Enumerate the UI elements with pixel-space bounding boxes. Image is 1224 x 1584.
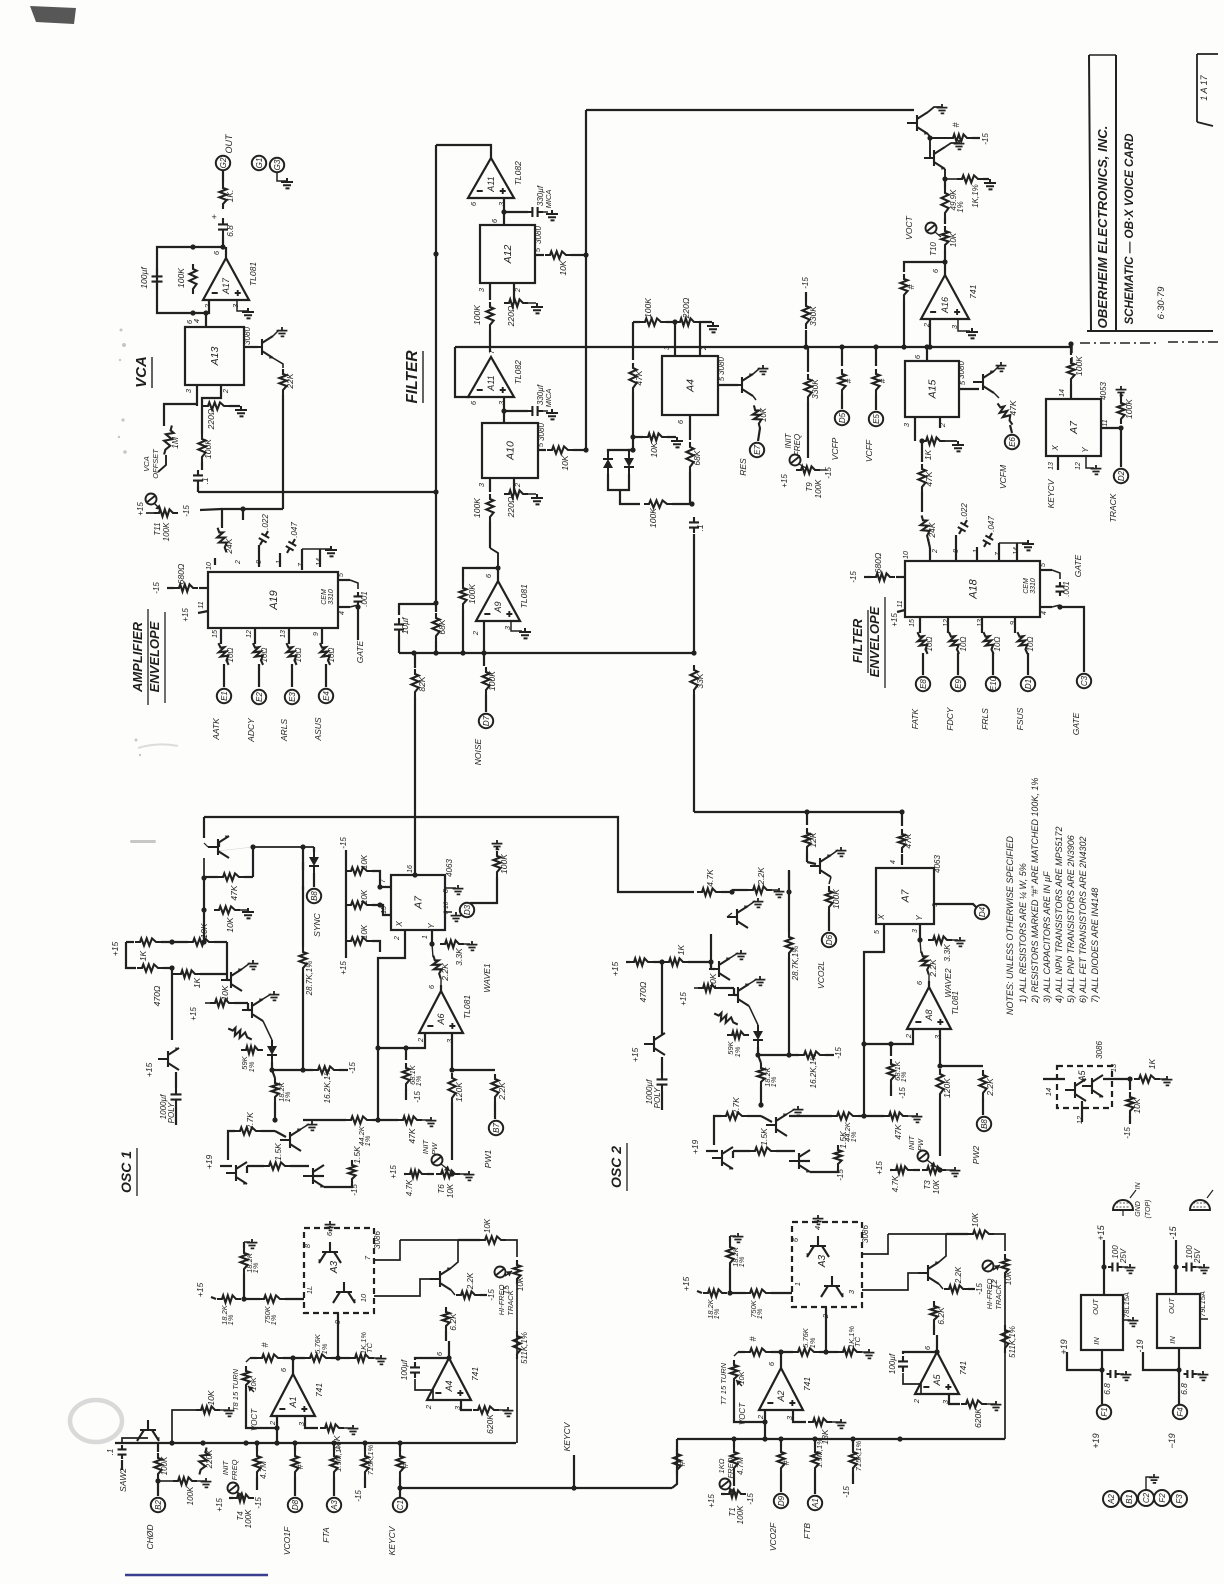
svg-text:6: 6: [279, 1367, 288, 1372]
T5 pot block osc1: [400, 1240, 458, 1268]
svg-text:3080: 3080: [537, 423, 546, 441]
svg-text:1.5K: 1.5K: [273, 1143, 283, 1161]
terminal F1: [1097, 1405, 1111, 1419]
grounds right of A7 osc1: [445, 887, 456, 889]
transistor HF track osc1: [430, 1267, 451, 1290]
svg-text:100K: 100K: [814, 479, 823, 498]
TO-92 package view 1: [1113, 1200, 1133, 1210]
svg-text:#: #: [951, 122, 961, 128]
svg-text:10K: 10K: [558, 260, 568, 275]
wire A3 osc2 pin2 down: [825, 1307, 827, 1352]
svg-text:220Ω: 220Ω: [681, 297, 691, 319]
svg-text:X: X: [877, 914, 886, 921]
svg-text:6: 6: [915, 980, 924, 985]
svg-text:3: 3: [902, 422, 911, 427]
resistor 470 osc1: [126, 942, 136, 968]
resistor star lower bus: [673, 1449, 680, 1475]
feedback wire to A11 upper: [436, 145, 491, 158]
capacitor 6.8 minus: [1184, 1370, 1197, 1378]
svg-text:-15: -15: [339, 837, 348, 849]
svg-text:100µf: 100µf: [400, 1359, 409, 1380]
svg-text:2.7K: 2.7K: [731, 1097, 741, 1116]
resistor 680ohm A19: [199, 587, 208, 589]
svg-text:100K: 100K: [472, 498, 482, 518]
svg-text:3.3K: 3.3K: [942, 944, 952, 962]
svg-text:ARLS: ARLS: [279, 719, 289, 743]
wires A5: [1043, 1078, 1065, 1080]
resistor 6.2K osc1: [442, 1307, 449, 1331]
svg-text:10Ω: 10Ω: [260, 648, 269, 663]
transistor Q top1: [907, 112, 928, 135]
svg-text:F1: F1: [1100, 1407, 1109, 1416]
svg-text:1.5M,1%: 1.5M,1%: [815, 1438, 824, 1468]
resistor 1K TC osc1: [350, 1354, 374, 1361]
svg-text:E9: E9: [954, 679, 963, 689]
svg-text:10Ω: 10Ω: [1026, 637, 1035, 652]
resistor 24K A18 chain: [918, 515, 932, 542]
ground above 100K: [1116, 386, 1127, 395]
resistor 1.5K osc2 a: [750, 1147, 776, 1154]
svg-text:FATK: FATK: [910, 708, 920, 729]
capacitor 100 25V minus: [1182, 1263, 1196, 1272]
ground at VCA transistor: [273, 330, 279, 336]
resistor * -15 top: [930, 137, 948, 139]
transistor at A15 out: [959, 388, 979, 390]
svg-text:2: 2: [912, 1398, 921, 1404]
terminal G2 OUT: [216, 156, 230, 170]
transistor pair A3 osc2: [806, 1236, 829, 1257]
resistor 47K left of A4: [632, 322, 634, 360]
svg-text:100K: 100K: [472, 305, 482, 325]
svg-text:100K: 100K: [467, 584, 477, 604]
resistor 1M: [161, 425, 176, 456]
svg-text:A4: A4: [685, 379, 697, 393]
svg-text:#: #: [906, 284, 916, 290]
osc1 +15 row: [203, 910, 205, 942]
svg-text:FREQ: FREQ: [793, 434, 802, 456]
svg-text:16.2K,1%: 16.2K,1%: [809, 1054, 818, 1089]
svg-text:1.5K: 1.5K: [352, 1146, 362, 1164]
transistor Q top2: [924, 147, 945, 170]
svg-text:#: #: [877, 378, 887, 383]
svg-text:E8: E8: [919, 679, 928, 689]
transistor osc2 a: [727, 905, 748, 928]
resistor 68K below A4: [689, 415, 691, 440]
terminal E2 ADCY: [252, 690, 266, 704]
resistor 715K osc1: [361, 1451, 368, 1477]
diode 59K osc1: [241, 1046, 263, 1053]
resistor 68.1K osc1: [405, 1048, 407, 1060]
A3 osc2 wires to HF track: [862, 1234, 888, 1254]
dashed box A3 osc2 3086: [792, 1222, 862, 1307]
feedback wire bus1 corner: [455, 347, 469, 397]
svg-text:#: #: [260, 1342, 270, 1348]
svg-text:FREQ: FREQ: [230, 1459, 239, 1480]
pot T10 VOCT: [944, 218, 946, 224]
svg-text:3) ALL CAPACITORS ARE IN µF: 3) ALL CAPACITORS ARE IN µF: [1042, 871, 1052, 1003]
resistor 5.76K osc2: [793, 1348, 819, 1355]
svg-text:10Ω: 10Ω: [294, 648, 303, 663]
terminal D7 NOISE: [479, 714, 493, 728]
svg-text:1: 1: [422, 935, 429, 939]
svg-text:6: 6: [490, 218, 499, 223]
svg-text:TL082: TL082: [513, 161, 523, 185]
svg-text:28.7K,1%: 28.7K,1%: [791, 946, 800, 982]
svg-text:VCO2F: VCO2F: [768, 1522, 778, 1551]
svg-text:+15: +15: [389, 1165, 398, 1179]
ground at A19 caps: [301, 549, 303, 570]
svg-text:.001: .001: [360, 591, 369, 607]
svg-text:GATE: GATE: [1071, 712, 1081, 735]
svg-text:1K: 1K: [676, 944, 686, 955]
svg-text:8: 8: [443, 889, 450, 893]
svg-text:D1: D1: [1024, 679, 1033, 689]
wire collector rail: [218, 843, 220, 847]
svg-text:10K: 10K: [225, 917, 235, 932]
svg-text:6.2K: 6.2K: [936, 1307, 946, 1325]
resistor 18K A2: [793, 1410, 806, 1422]
svg-text:10: 10: [903, 551, 910, 559]
svg-text:10K: 10K: [360, 924, 369, 939]
resistor 10K osc1 row: [188, 938, 214, 945]
wire A8 pin2 junction: [864, 1029, 913, 1044]
resistor star vco2f: [777, 1447, 784, 1473]
svg-text:F4: F4: [1176, 1407, 1185, 1417]
svg-text:9: 9: [313, 632, 320, 636]
op-amp A8 TL081: [907, 987, 951, 1029]
svg-text:E5: E5: [872, 414, 881, 424]
terminal G3: [270, 158, 284, 172]
transistor osc1 d: [280, 1128, 301, 1151]
svg-text:10Ω: 10Ω: [925, 637, 934, 652]
IC A10 3080: [482, 423, 538, 478]
terminal D6 VCO2L: [822, 933, 836, 947]
+15 at A18: [897, 610, 905, 612]
svg-text:47K: 47K: [229, 885, 239, 900]
svg-text:.1: .1: [106, 1449, 115, 1456]
svg-text:OUT: OUT: [1167, 1297, 1176, 1314]
ground at G3: [277, 173, 286, 181]
resistor 16.2K osc2: [799, 1051, 825, 1058]
resistor 2.2K osc2 gnd: [748, 886, 772, 893]
resistor 47K osc2 pw: [884, 1112, 908, 1119]
svg-text:ADCY: ADCY: [246, 717, 256, 743]
resistor * A16 feedback: [900, 274, 907, 300]
svg-text:1%: 1%: [737, 1256, 746, 1267]
svg-text:-15: -15: [348, 1062, 357, 1074]
svg-text:+19: +19: [690, 1140, 700, 1155]
resistor 18K A1: [305, 1416, 318, 1428]
svg-text:100K: 100K: [162, 522, 171, 541]
capacitor 6.8 plus: [1107, 1370, 1120, 1378]
resistor 33K: [690, 665, 697, 695]
svg-text:-15: -15: [152, 582, 161, 594]
svg-text:4063: 4063: [933, 855, 942, 873]
KEYCV stub label: [573, 1455, 575, 1488]
svg-text:MICA: MICA: [544, 190, 553, 209]
resistor 2.2K PW2: [979, 1070, 986, 1098]
svg-text:1) ALL RESISTORS ARE ¼ W, 5%: 1) ALL RESISTORS ARE ¼ W, 5%: [1018, 863, 1028, 1003]
svg-text:A13: A13: [209, 347, 221, 367]
svg-text:1%: 1%: [712, 1308, 721, 1319]
svg-text:A12: A12: [502, 245, 514, 265]
svg-text:D2: D2: [1117, 470, 1126, 481]
resistor 330K upper -15: [805, 330, 807, 347]
terminal E3 ARLS: [285, 690, 299, 704]
resistor star osc1: [257, 1354, 283, 1361]
svg-text:3: 3: [477, 482, 486, 487]
wire A2 pin2 to bus: [734, 1394, 765, 1422]
svg-text:6.8: 6.8: [225, 225, 235, 237]
svg-text:100K: 100K: [648, 508, 658, 528]
svg-text:TL081: TL081: [462, 995, 472, 1019]
svg-text:A11: A11: [486, 176, 496, 192]
op-amp A11 TL082 upper: [468, 158, 514, 198]
terminal A3 FTA: [327, 1498, 341, 1512]
A3 pin7 wire to HF track: [374, 1240, 400, 1260]
svg-text:T3: T3: [923, 1180, 932, 1190]
svg-text:1K: 1K: [138, 950, 148, 961]
capacitor 100uF A4: [415, 1358, 449, 1360]
capacitor 1000pF POLY osc2: [657, 1073, 668, 1091]
svg-text:3: 3: [912, 929, 919, 933]
svg-text:3086: 3086: [1095, 1041, 1104, 1059]
resistor 24K at A19: [214, 558, 216, 565]
resistor 120K osc1: [448, 1073, 455, 1103]
svg-text:FILTER: FILTER: [404, 350, 421, 404]
svg-text:100K: 100K: [499, 854, 509, 874]
svg-text:10Ω: 10Ω: [959, 637, 968, 652]
resistor 715K osc2: [849, 1447, 856, 1473]
svg-text:1%: 1%: [899, 1071, 908, 1082]
svg-text:2.2K: 2.2K: [497, 1082, 507, 1101]
svg-text:10K: 10K: [708, 973, 718, 988]
resistor 100K noise: [483, 653, 485, 666]
svg-text:TRACK: TRACK: [994, 1283, 1003, 1309]
svg-text:OSC 2: OSC 2: [608, 1146, 624, 1188]
wire emitter to 1K: [944, 169, 946, 179]
IC A15 3080: [926, 347, 928, 361]
resistor 100K at A7 pin11: [1101, 427, 1121, 429]
diode pair: [608, 450, 633, 452]
resistor 2.2K HF osc1: [451, 1290, 455, 1295]
svg-text:4.7K: 4.7K: [705, 869, 715, 887]
transistor HF track osc2: [918, 1261, 939, 1284]
svg-text:IN: IN: [1168, 1336, 1177, 1344]
wire A7 osc2 Y down: [919, 924, 921, 940]
svg-text:PW: PW: [430, 1142, 439, 1155]
resistor 10K to RES: [753, 396, 756, 400]
svg-text:GATE: GATE: [355, 640, 365, 663]
capacitor 100uF feedback: [152, 268, 163, 290]
svg-text:+15: +15: [136, 502, 145, 516]
ground below A10: [531, 494, 543, 504]
svg-text:-15: -15: [350, 1184, 359, 1196]
resistor 1K A5: [1134, 1075, 1160, 1082]
resistor 5.76K osc1: [305, 1354, 331, 1361]
resistor 47K osc2 top: [901, 812, 903, 826]
svg-text:3: 3: [847, 1289, 856, 1294]
svg-text:INIT: INIT: [221, 1460, 230, 1476]
svg-text:15: 15: [212, 630, 219, 638]
svg-text:15: 15: [909, 619, 916, 627]
ground at A17 pin3: [237, 300, 247, 311]
resistor 47K A18 chain: [921, 441, 923, 462]
svg-text:3080: 3080: [957, 361, 966, 379]
svg-text:A8: A8: [924, 1009, 934, 1021]
svg-text:+15: +15: [110, 942, 120, 957]
top signal wire: [586, 109, 914, 111]
title block border: [1089, 55, 1091, 331]
feedback wire A16: [904, 262, 945, 272]
svg-text:OSC 1: OSC 1: [118, 1151, 134, 1193]
resistor 100K to A7: [1067, 358, 1074, 384]
svg-text:1%: 1%: [755, 1308, 764, 1319]
diode 59K osc2: [727, 1031, 749, 1038]
ground 1K TC osc2: [864, 1349, 875, 1358]
wire A8 pin3 down: [939, 1029, 941, 1066]
svg-text:FTB: FTB: [802, 1523, 812, 1539]
svg-text:10K: 10K: [560, 455, 570, 470]
svg-text:A7: A7: [413, 895, 425, 910]
resistor 620K A4: [461, 1400, 472, 1410]
resistor 2.2K HF osc2: [939, 1284, 943, 1289]
resistor 22K: [273, 358, 283, 368]
svg-text:10K: 10K: [949, 232, 958, 247]
svg-text:VCFP: VCFP: [830, 437, 840, 460]
svg-text:3086: 3086: [373, 1231, 382, 1249]
svg-text:T10: T10: [929, 242, 938, 256]
svg-text:10Ω: 10Ω: [226, 648, 235, 663]
svg-text:10Ω: 10Ω: [993, 637, 1002, 652]
wires A4 top pins: [674, 322, 676, 356]
resistor 4.7K osc2: [697, 888, 721, 895]
capacitor 100 25V plus: [1108, 1263, 1122, 1272]
IC A19 CEM3310: [208, 572, 338, 628]
wire 24K to A18 pin10: [929, 548, 931, 561]
svg-text:10K: 10K: [649, 442, 659, 457]
resistor 16.2K osc1: [313, 1066, 339, 1073]
svg-text:47K: 47K: [1008, 400, 1018, 415]
osc1 rail corner down: [203, 817, 205, 838]
svg-text:3310: 3310: [1030, 578, 1037, 594]
IC A18 CEM3310: [905, 561, 1040, 617]
svg-text:-15: -15: [975, 1283, 984, 1295]
svg-text:6: 6: [931, 268, 940, 273]
resistor 28.7K osc2: [788, 870, 790, 892]
svg-text:A1: A1: [811, 1498, 820, 1509]
ground at A18 caps: [998, 543, 1000, 561]
svg-text:6: 6: [469, 201, 478, 206]
ground 620K osc2: [991, 1401, 1002, 1410]
wire osc2 down: [710, 934, 712, 967]
resistor 12K: [806, 812, 808, 825]
svg-text:12K: 12K: [808, 832, 818, 847]
svg-text:TRACK: TRACK: [1108, 493, 1118, 522]
svg-text:INIT: INIT: [421, 1139, 430, 1155]
svg-text:620K: 620K: [485, 1414, 495, 1434]
svg-text:A4: A4: [444, 1380, 454, 1392]
svg-text:KEYCV: KEYCV: [562, 1421, 572, 1451]
svg-text:10K: 10K: [759, 407, 768, 422]
wire X node down: [377, 1048, 379, 1120]
resistor 1K osc2: [664, 958, 688, 965]
svg-text:3: 3: [231, 303, 240, 308]
svg-text:-15: -15: [254, 1497, 263, 1509]
svg-text:-15: -15: [746, 1493, 755, 1505]
svg-text:A2: A2: [1107, 1494, 1116, 1505]
ground at 79L15A: [1200, 1318, 1208, 1320]
svg-text:24K: 24K: [224, 538, 234, 554]
svg-text:CEM: CEM: [1023, 578, 1030, 594]
svg-text:.022: .022: [261, 514, 270, 530]
svg-text:A18: A18: [967, 578, 979, 599]
IC A4 3080: [662, 356, 718, 415]
svg-text:10K: 10K: [199, 923, 209, 938]
svg-text:220Ω: 220Ω: [206, 408, 216, 430]
svg-text:12: 12: [1075, 462, 1082, 470]
svg-text:470Ω: 470Ω: [638, 981, 648, 1002]
svg-text:47K: 47K: [893, 1124, 903, 1139]
wire A9 feedback top: [399, 603, 436, 605]
svg-text:VCFF: VCFF: [864, 439, 874, 462]
terminal E8 FATK: [916, 677, 930, 691]
svg-text:1%: 1%: [283, 1091, 292, 1102]
svg-text:Y: Y: [1081, 447, 1090, 453]
feedback wire VCA: [157, 247, 223, 313]
svg-text:1: 1: [793, 1282, 802, 1286]
svg-text:10K: 10K: [360, 889, 369, 904]
svg-text:OUT: OUT: [1091, 1298, 1100, 1315]
svg-text:16: 16: [407, 865, 414, 873]
svg-text:10K: 10K: [360, 854, 369, 869]
svg-text:11: 11: [1102, 419, 1109, 426]
svg-text:1L: 1L: [305, 1286, 314, 1294]
svg-text:Y: Y: [427, 923, 436, 929]
resistor 330K lower: [807, 347, 809, 372]
svg-text:TL081: TL081: [950, 991, 960, 1015]
svg-text:A15: A15: [927, 380, 939, 400]
capacitor .047 A19: [279, 553, 281, 567]
ground osc2 b: [730, 953, 738, 958]
filter input vertical wire: [435, 145, 437, 604]
GATE stub A19: [357, 607, 359, 640]
resistor 2.2K PW1: [491, 1074, 498, 1102]
resistor star keycv: [396, 1451, 403, 1477]
resistor 2.7K osc2: [721, 1112, 747, 1119]
svg-text:100K: 100K: [487, 671, 497, 691]
svg-text:220K: 220K: [205, 1449, 214, 1469]
svg-text:+19: +19: [1091, 1433, 1101, 1448]
IC A12 3080: [480, 225, 535, 283]
svg-text:3080: 3080: [243, 327, 252, 345]
svg-text:79L15A: 79L15A: [1198, 1291, 1207, 1317]
resistor 220ohm below A13: [196, 385, 198, 406]
svg-text:100K: 100K: [831, 889, 841, 909]
resistor 10K input osc1: [196, 1406, 220, 1413]
ground right of 220ohm: [235, 406, 247, 416]
svg-text:A5: A5: [932, 1374, 942, 1387]
svg-text:4063: 4063: [445, 859, 454, 877]
svg-text:2: 2: [904, 1033, 913, 1039]
svg-text:-19: -19: [1135, 1339, 1145, 1352]
svg-text:.1: .1: [200, 477, 210, 484]
wire bus to 100K A7: [1070, 344, 1072, 355]
svg-text:KEYCV: KEYCV: [1046, 478, 1056, 508]
svg-text:E6: E6: [1008, 437, 1017, 447]
terminal E1 AATK: [217, 689, 231, 703]
svg-text:6: 6: [427, 984, 436, 989]
